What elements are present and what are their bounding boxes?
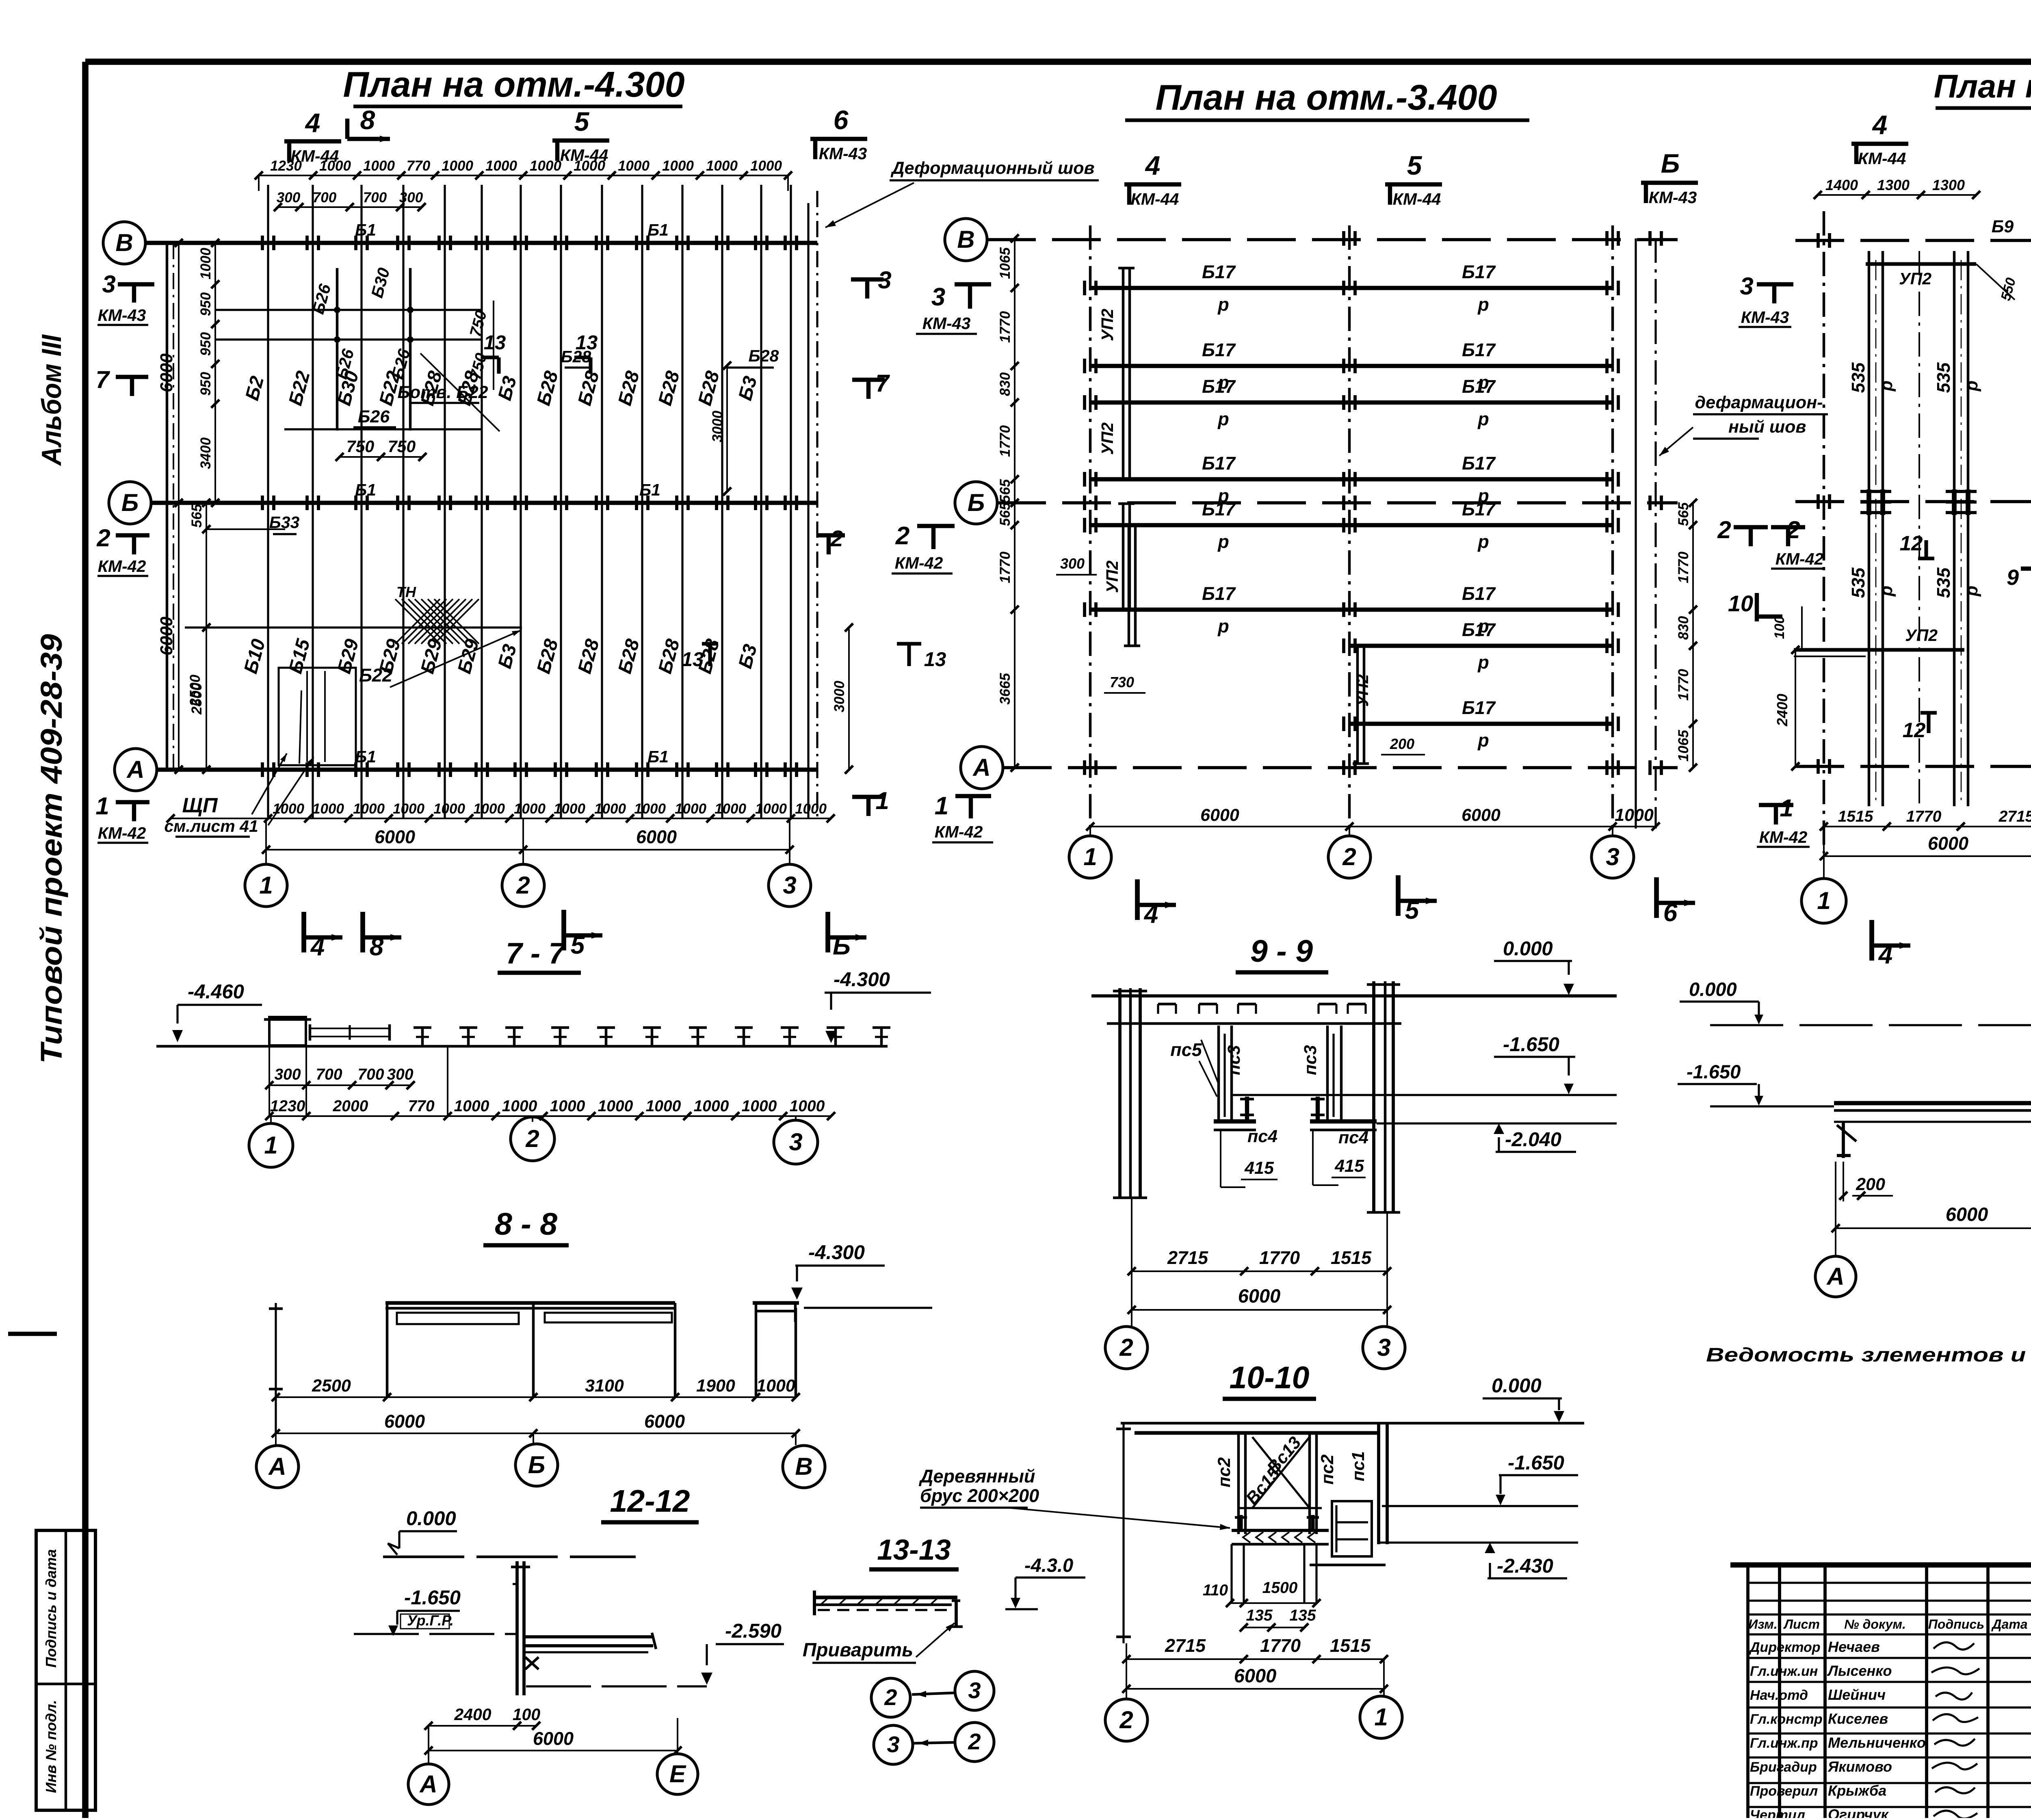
svg-text:План на отм.-4.300: План на отм.-4.300	[343, 64, 684, 104]
svg-text:3665: 3665	[997, 673, 1013, 705]
plan3 left small horiz dim line	[1794, 656, 1866, 657]
section 9-9 channel marks under slab	[1158, 1003, 1176, 1006]
svg-text:УП2: УП2	[1353, 674, 1372, 707]
section 12-12 line -2.590	[526, 1685, 707, 1687]
svg-text:300: 300	[277, 190, 301, 206]
svg-text:Б28: Б28	[573, 636, 603, 676]
svg-text:КМ-43: КМ-43	[819, 144, 867, 163]
svg-text:830: 830	[997, 372, 1013, 396]
svg-text:100: 100	[513, 1705, 541, 1724]
svg-text:1000: 1000	[514, 801, 546, 817]
svg-text:Альбом III: Альбом III	[36, 334, 67, 466]
svg-text:1000: 1000	[694, 1097, 729, 1115]
svg-text:Б: Б	[528, 1451, 545, 1478]
svg-text:Ведомость злементов и общие пр: Ведомость злементов и общие примечания с…	[1706, 1344, 2031, 1366]
svg-text:1770: 1770	[1260, 1635, 1301, 1656]
svg-text:-4.460: -4.460	[188, 981, 244, 1003]
svg-text:пс2: пс2	[1318, 1454, 1337, 1485]
section 12-12 beam right	[525, 1635, 653, 1638]
svg-text:3: 3	[968, 1677, 981, 1703]
svg-text:Б1: Б1	[647, 221, 669, 239]
plan1 right inner dim 3000 lower	[848, 628, 850, 770]
section 10-10 mid tie	[1239, 1507, 1322, 1509]
svg-text:2: 2	[525, 1125, 539, 1152]
section 7-7 left column box	[269, 1017, 306, 1045]
svg-text:Б2: Б2	[241, 374, 268, 403]
section 10-10 cabinet box	[1332, 1501, 1372, 1556]
svg-text:пс4: пс4	[1247, 1127, 1277, 1146]
svg-text:1: 1	[1374, 1703, 1388, 1731]
svg-text:-4.300: -4.300	[834, 969, 890, 991]
svg-text:1: 1	[95, 792, 109, 820]
svg-text:1000: 1000	[198, 248, 214, 279]
svg-text:Б28: Б28	[693, 368, 723, 408]
svg-text:6000: 6000	[1462, 805, 1501, 825]
svg-text:4: 4	[1143, 900, 1158, 928]
svg-text:р: р	[1217, 531, 1229, 552]
sheet frame	[85, 58, 2031, 65]
svg-text:535: 535	[1848, 567, 1869, 598]
section 10-10 jacks	[1239, 1515, 1243, 1530]
svg-text:1770: 1770	[997, 425, 1013, 457]
plan2 right dim chain	[1692, 503, 1694, 768]
svg-text:пс3: пс3	[1301, 1045, 1320, 1075]
svg-text:Б17: Б17	[1462, 453, 1496, 474]
svg-text:565: 565	[189, 504, 205, 528]
svg-text:1000: 1000	[742, 1097, 777, 1115]
svg-text:КМ-42: КМ-42	[98, 557, 146, 576]
plan1 left inner dims	[214, 243, 216, 503]
svg-text:700: 700	[363, 190, 387, 206]
svg-text:13-13: 13-13	[877, 1534, 951, 1566]
svg-text:Киселев: Киселев	[1828, 1710, 1888, 1727]
svg-text:КМ-42: КМ-42	[1759, 828, 1808, 846]
svg-text:1065: 1065	[1676, 730, 1691, 762]
svg-text:1000: 1000	[755, 801, 787, 817]
svg-text:6: 6	[1663, 899, 1678, 927]
svg-text:дефармацион-: дефармацион-	[1695, 393, 1823, 412]
svg-text:Б17: Б17	[1462, 499, 1496, 519]
svg-text:Б1: Б1	[355, 480, 376, 499]
section 10-10 circles	[1105, 1699, 1148, 1741]
svg-text:8: 8	[360, 105, 375, 135]
svg-text:Б1: Б1	[355, 747, 376, 766]
svg-text:700: 700	[313, 190, 337, 206]
svg-text:9 - 9: 9 - 9	[1250, 934, 1313, 969]
svg-text:Б3: Б3	[494, 642, 521, 671]
svg-text:-1.650: -1.650	[1508, 1452, 1564, 1474]
plan1 subframe B26	[336, 268, 339, 431]
svg-text:4: 4	[1878, 941, 1892, 969]
svg-text:В: В	[957, 226, 974, 253]
svg-text:2000: 2000	[333, 1097, 368, 1115]
svg-text:12: 12	[1900, 532, 1923, 555]
section 9-9 post ps3 right	[1326, 1026, 1329, 1121]
svg-text:1000: 1000	[473, 801, 505, 817]
plan1 right inner dim 3000 upper	[726, 366, 728, 491]
plan1 bottom axis circles 1 2 3	[265, 818, 267, 864]
plan2 beam rows B17	[1090, 286, 1613, 290]
svg-text:2715: 2715	[1165, 1635, 1206, 1656]
svg-text:1300: 1300	[1877, 177, 1910, 193]
section 10-10 bottom dims	[1126, 1658, 1384, 1660]
section 11-11 top level line	[1710, 1024, 2031, 1026]
svg-text:1515: 1515	[1330, 1635, 1371, 1656]
section 7-7 deck ribs	[421, 1028, 424, 1046]
plan1 axis line B	[151, 501, 817, 505]
svg-text:10-10: 10-10	[1230, 1360, 1310, 1395]
plan2 bottom flags	[1135, 879, 1140, 920]
svg-text:Деформационный шов: Деформационный шов	[890, 158, 1095, 178]
plan2 axis line V dashed	[987, 238, 1678, 241]
svg-text:Б15: Б15	[284, 636, 314, 676]
svg-text:Б17: Б17	[1202, 499, 1236, 519]
section 8-8 dims 6000	[276, 1433, 796, 1434]
svg-text:1515: 1515	[1331, 1247, 1372, 1268]
svg-text:р: р	[1477, 409, 1489, 429]
section 7-7 chord line	[156, 1045, 888, 1048]
svg-text:КМ-42: КМ-42	[935, 822, 983, 841]
plan2 left dim chain	[1014, 238, 1015, 768]
plan3 bottom circles	[1823, 827, 1825, 879]
section 12-12 circles	[408, 1764, 449, 1805]
svg-text:Огирчук: Огирчук	[1828, 1806, 1889, 1818]
svg-text:700: 700	[316, 1066, 342, 1083]
svg-text:550: 550	[1998, 276, 2019, 303]
svg-text:Б17: Б17	[1202, 262, 1236, 282]
section 7-7 dim row bottom	[269, 1115, 831, 1117]
plan1 axis circle B	[109, 482, 151, 524]
svg-text:300: 300	[387, 1066, 413, 1083]
svg-text:Якимово: Якимово	[1827, 1758, 1892, 1775]
svg-text:1000: 1000	[433, 801, 465, 817]
svg-text:КМ-44: КМ-44	[291, 147, 339, 165]
svg-text:9: 9	[2007, 565, 2019, 590]
plan3 bottom 6000 row	[1824, 855, 2031, 857]
section 10-10 top slab	[1121, 1422, 1584, 1425]
svg-text:730: 730	[1110, 674, 1134, 690]
plan2 axis circle V	[945, 219, 987, 261]
section 10-10 right column	[1377, 1423, 1380, 1544]
svg-text:Гл.инж.пр: Гл.инж.пр	[1750, 1736, 1818, 1751]
svg-text:750: 750	[346, 437, 375, 456]
svg-text:Б28: Б28	[613, 636, 643, 676]
svg-text:2400: 2400	[1774, 694, 1791, 727]
svg-text:7: 7	[875, 370, 890, 397]
svg-text:12-12: 12-12	[610, 1484, 690, 1519]
svg-text:УП2: УП2	[1905, 626, 1938, 645]
svg-text:4: 4	[1872, 110, 1888, 140]
plan1 axis line A	[157, 768, 817, 772]
svg-text:13: 13	[682, 649, 704, 671]
svg-text:1770: 1770	[1259, 1247, 1300, 1268]
svg-text:6000: 6000	[384, 1411, 425, 1432]
svg-text:Подпись: Подпись	[1928, 1617, 1984, 1632]
svg-text:4: 4	[305, 108, 320, 138]
section 10-10 dim 6000	[1126, 1688, 1384, 1690]
svg-text:0.000: 0.000	[1503, 938, 1553, 960]
svg-text:Крыжба: Крыжба	[1828, 1782, 1886, 1799]
section 9-9 post ps3 left	[1217, 1026, 1220, 1121]
svg-text:2500: 2500	[312, 1376, 351, 1396]
plan1 bottom dim row 1000s	[171, 818, 831, 819]
svg-text:Б17: Б17	[1462, 262, 1496, 282]
svg-text:№ докум.: № докум.	[1844, 1617, 1906, 1632]
svg-text:6000: 6000	[1946, 1203, 1988, 1225]
svg-text:1000: 1000	[790, 1097, 825, 1115]
plan2 deformation joint verticals	[1635, 238, 1637, 829]
section 10-10 posts ps2 ps2	[1237, 1433, 1240, 1534]
svg-text:Б28: Б28	[573, 368, 603, 408]
section 12-12 dim 6000	[429, 1750, 678, 1751]
svg-text:-2.040: -2.040	[1505, 1129, 1561, 1151]
svg-text:2: 2	[96, 524, 110, 552]
svg-text:Дата: Дата	[1991, 1617, 2027, 1632]
plan2 axis line A dashed	[1003, 766, 1678, 769]
svg-text:3400: 3400	[198, 437, 214, 469]
plan1 subframe dim 750x750 below	[340, 456, 422, 458]
svg-text:Б10: Б10	[239, 637, 269, 676]
svg-text:830: 830	[1676, 616, 1691, 640]
svg-text:3000: 3000	[710, 411, 725, 442]
svg-text:2: 2	[830, 526, 843, 551]
svg-text:3: 3	[1377, 1334, 1390, 1361]
svg-text:1500: 1500	[1262, 1579, 1298, 1597]
svg-text:Проверил: Проверил	[1750, 1783, 1818, 1799]
svg-text:р: р	[1217, 294, 1229, 315]
svg-text:Б1: Б1	[355, 221, 376, 239]
svg-text:Б17: Б17	[1202, 583, 1236, 604]
section 9-9 circles	[1105, 1327, 1148, 1369]
section 12-12 bottom dims	[429, 1725, 536, 1727]
svg-text:1: 1	[935, 792, 948, 820]
svg-text:13: 13	[484, 332, 506, 354]
svg-text:1770: 1770	[1676, 669, 1691, 701]
svg-text:1000: 1000	[634, 801, 666, 817]
section 13-13 bracket drawing	[814, 1595, 957, 1599]
plan3 colmarks	[1817, 233, 1820, 248]
svg-text:Лысенко: Лысенко	[1827, 1662, 1892, 1679]
section 8-8 left dim vertical	[275, 1303, 277, 1434]
svg-text:Е: Е	[669, 1760, 686, 1788]
plan2 axis line B	[997, 501, 1678, 504]
svg-text:12: 12	[1903, 718, 1926, 742]
svg-text:А: А	[972, 754, 990, 781]
svg-text:ный шов: ный шов	[1728, 417, 1806, 437]
title block outer top line	[1730, 1562, 2031, 1568]
svg-text:700: 700	[357, 1066, 384, 1083]
svg-text:1000: 1000	[393, 801, 424, 817]
plan1 bottom dim row 6000s	[266, 849, 790, 850]
plan2 bottom axis circles	[1089, 827, 1091, 836]
svg-text:3: 3	[789, 1128, 802, 1156]
svg-text:Шейнич: Шейнич	[1828, 1686, 1886, 1703]
svg-text:-2.430: -2.430	[1497, 1555, 1553, 1577]
svg-text:1000: 1000	[675, 801, 706, 817]
svg-text:1230: 1230	[270, 1097, 305, 1115]
section 11-11 second level line	[1710, 1105, 1834, 1107]
section 12-12 line -1.650	[354, 1633, 517, 1635]
svg-text:1: 1	[1780, 794, 1793, 822]
svg-text:пс2: пс2	[1215, 1457, 1234, 1487]
svg-text:535: 535	[1848, 362, 1869, 393]
svg-text:1000: 1000	[485, 158, 517, 174]
svg-text:Б26: Б26	[358, 407, 390, 426]
svg-text:пс5: пс5	[1170, 1039, 1202, 1060]
svg-text:Мельниченко: Мельниченко	[1828, 1734, 1926, 1751]
svg-text:1000: 1000	[454, 1097, 489, 1115]
svg-text:2715: 2715	[1999, 808, 2031, 825]
svg-text:0.000: 0.000	[406, 1508, 456, 1530]
svg-text:План на отм. -1.650,-2.040: План на отм. -1.650,-2.040	[1934, 68, 2031, 105]
svg-text:Директор: Директор	[1749, 1640, 1821, 1655]
plan3 UP2 bars	[1866, 262, 1976, 266]
svg-text:3: 3	[102, 271, 115, 298]
svg-text:Б1: Б1	[647, 747, 669, 766]
section 13-13 node circles	[871, 1678, 910, 1717]
svg-text:2: 2	[895, 522, 909, 550]
svg-text:Нач.отд: Нач.отд	[1750, 1688, 1808, 1703]
svg-text:Б22: Б22	[284, 369, 314, 408]
svg-text:1000: 1000	[502, 1097, 537, 1115]
svg-text:-4.3.0: -4.3.0	[1024, 1554, 1073, 1576]
section 8-8 verticals	[386, 1303, 389, 1397]
plan1 door SCHP	[279, 668, 356, 765]
svg-text:КМ-42: КМ-42	[1776, 550, 1824, 568]
plan3 beam pairs	[1868, 251, 1871, 806]
plan3 top dims	[1818, 194, 1976, 196]
svg-text:КМ-44: КМ-44	[560, 146, 608, 164]
svg-text:см.лист 41: см.лист 41	[164, 817, 258, 835]
svg-text:1: 1	[259, 872, 273, 899]
svg-text:р: р	[1477, 652, 1489, 673]
svg-text:5: 5	[571, 931, 585, 959]
svg-text:Ботв. Б22: Ботв. Б22	[397, 383, 488, 402]
left stamp table	[36, 1530, 95, 1810]
plan2 axis circle B	[955, 482, 997, 524]
section 8-8 deck top	[385, 1301, 675, 1305]
plan3 intermediate dashdot verticals	[1918, 251, 1920, 806]
plan1 axis circle V	[103, 222, 145, 264]
svg-text:1770: 1770	[1676, 552, 1691, 583]
svg-text:6000: 6000	[375, 827, 415, 847]
plan1 top dim row 2	[278, 206, 422, 208]
title block personnel table	[1746, 1565, 1750, 1818]
svg-text:р: р	[1877, 381, 1896, 392]
svg-text:6000: 6000	[1928, 833, 1968, 854]
svg-text:Б29: Б29	[333, 637, 362, 676]
svg-text:Б17: Б17	[1202, 340, 1236, 360]
section 9-9 right column	[1372, 981, 1375, 1212]
svg-text:3: 3	[887, 1731, 899, 1757]
svg-text:А: А	[268, 1453, 286, 1480]
svg-text:1: 1	[264, 1132, 277, 1159]
plan1 bottom section flags	[301, 912, 306, 952]
svg-text:2400: 2400	[454, 1705, 491, 1724]
section 7-7 bracket 700x700	[310, 1028, 390, 1037]
svg-text:135: 135	[1246, 1607, 1273, 1624]
svg-text:р: р	[1217, 616, 1229, 636]
svg-text:5: 5	[1407, 150, 1423, 180]
section 7-7 circles	[270, 1116, 272, 1124]
svg-text:Б30: Б30	[368, 266, 394, 300]
svg-text:1000: 1000	[273, 801, 304, 817]
svg-text:КМ-44: КМ-44	[1131, 190, 1179, 208]
svg-text:В: В	[795, 1453, 812, 1480]
svg-text:950: 950	[198, 372, 214, 396]
svg-text:3: 3	[783, 872, 796, 899]
svg-text:110: 110	[1203, 1582, 1228, 1599]
svg-text:Б3: Б3	[494, 374, 521, 403]
svg-text:3000: 3000	[831, 681, 847, 712]
svg-text:Б28: Б28	[654, 636, 684, 676]
svg-text:5: 5	[574, 106, 590, 136]
svg-text:3: 3	[931, 283, 945, 311]
svg-text:пс3: пс3	[1224, 1045, 1244, 1075]
svg-text:КМ-43: КМ-43	[1741, 308, 1789, 327]
svg-text:Б17: Б17	[1202, 376, 1236, 397]
svg-text:1000: 1000	[554, 801, 585, 817]
svg-text:4: 4	[1145, 150, 1161, 180]
section 8-8 deck band right	[545, 1313, 672, 1322]
svg-text:А: А	[419, 1770, 437, 1798]
svg-text:1000: 1000	[795, 801, 827, 817]
plan2 axis verticals 1 2 3	[1089, 225, 1092, 829]
svg-text:750: 750	[388, 437, 416, 456]
svg-text:1000: 1000	[618, 158, 650, 174]
plan1 inner horizontal line 2500 above A	[185, 626, 522, 628]
svg-text:пс1: пс1	[1349, 1451, 1368, 1481]
section 11-11 bottom dims 6000 6000	[1836, 1227, 2031, 1229]
svg-text:770: 770	[407, 158, 431, 174]
plan1 vertical beams	[267, 185, 269, 818]
svg-text:300: 300	[1060, 555, 1085, 572]
svg-text:-1.650: -1.650	[1503, 1034, 1559, 1056]
svg-text:Б17: Б17	[1202, 453, 1236, 474]
svg-text:13: 13	[924, 649, 946, 671]
svg-text:Деревянный: Деревянный	[918, 1466, 1035, 1487]
section 10-10 footing with chevrons	[1232, 1529, 1329, 1532]
section 12-12 column	[515, 1561, 519, 1695]
svg-text:1770: 1770	[997, 311, 1013, 343]
svg-text:415: 415	[1244, 1158, 1274, 1178]
svg-text:300: 300	[399, 190, 423, 206]
svg-text:В: В	[115, 229, 133, 256]
section 10-10 left boundary	[1122, 1423, 1124, 1643]
svg-text:Б: Б	[833, 932, 851, 960]
section 8-8 right channel	[753, 1301, 799, 1305]
svg-text:Чертил: Чертил	[1750, 1807, 1805, 1818]
svg-text:Гл.инж.ин: Гл.инж.ин	[1750, 1664, 1818, 1679]
svg-text:ТН: ТН	[396, 584, 416, 600]
section 12-12 column bracket	[525, 1657, 539, 1669]
svg-text:УП2: УП2	[1098, 309, 1117, 341]
svg-text:6000: 6000	[533, 1728, 574, 1749]
svg-text:1000: 1000	[312, 801, 344, 817]
svg-text:УП2: УП2	[1098, 422, 1117, 455]
svg-text:950: 950	[198, 292, 214, 316]
svg-text:Б3: Б3	[734, 642, 761, 671]
svg-text:0.000: 0.000	[1492, 1375, 1542, 1397]
section 8-8 circles	[275, 1433, 277, 1445]
svg-text:2: 2	[1717, 516, 1731, 543]
section 8-8 dims	[276, 1396, 796, 1398]
plan1 left wall line	[166, 243, 169, 770]
svg-text:КМ-43: КМ-43	[1649, 188, 1697, 207]
section 12-12 ground line	[383, 1556, 636, 1558]
svg-text:План на отм.-3.400: План на отм.-3.400	[1155, 77, 1497, 117]
svg-text:565: 565	[1676, 502, 1691, 526]
